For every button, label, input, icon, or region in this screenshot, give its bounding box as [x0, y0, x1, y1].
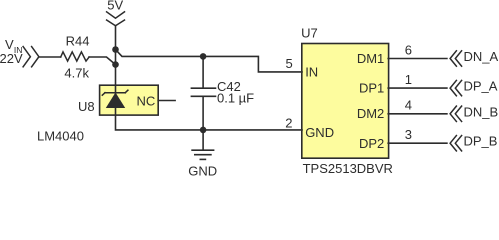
pin DP1 label: [359, 81, 384, 96]
pin DM2 label: [357, 106, 384, 121]
node junction dot C42 top: [200, 53, 207, 60]
off-page connector DP_B: [450, 136, 456, 151]
net label DP_B: [464, 134, 498, 149]
node junction dot lower: [112, 61, 119, 68]
wire 5V vertical down to U8 diode: [115, 26, 117, 93]
svg-text:LM4040: LM4040: [37, 129, 84, 144]
wire V_IN to R44: [39, 56, 61, 58]
svg-text:DM1: DM1: [357, 51, 384, 66]
svg-text:DP_B: DP_B: [464, 134, 498, 149]
svg-text:U8: U8: [78, 99, 95, 114]
wire DP1 pin 1: [388, 87, 447, 89]
svg-text:TPS2513DBVR: TPS2513DBVR: [303, 161, 393, 176]
off-page connector DN_B: [450, 106, 456, 121]
svg-text:1: 1: [405, 72, 412, 87]
pin GND label: [305, 125, 334, 140]
label U7: [301, 26, 318, 41]
node V_IN label: [0, 37, 23, 66]
power 5V label: [107, 0, 123, 13]
svg-text:DP_A: DP_A: [464, 79, 498, 94]
zener diode U8 symbol: [102, 90, 128, 95]
node junction dot upper: [112, 46, 119, 53]
wire DM1 pin 6: [388, 58, 447, 60]
IC U7 box: [302, 44, 389, 159]
svg-text:GND: GND: [305, 125, 334, 140]
off-page connector DN_A: [450, 51, 456, 66]
wire DM2 pin 4: [388, 113, 447, 115]
pin DM1 label: [357, 51, 384, 66]
svg-text:DN_B: DN_B: [464, 104, 499, 119]
svg-text:IN: IN: [305, 65, 318, 80]
node junction dot C42 bottom: [200, 127, 207, 134]
svg-text:DP2: DP2: [359, 136, 384, 151]
svg-text:V: V: [5, 37, 14, 52]
power 5V chevron symbol: [107, 12, 125, 18]
wire DP2 pin 3: [388, 142, 447, 144]
svg-text:U7: U7: [301, 26, 318, 41]
svg-text:5: 5: [286, 56, 293, 71]
svg-text:DM2: DM2: [357, 106, 384, 121]
capacitor C42: [202, 56, 204, 88]
ground: [202, 130, 204, 150]
net label DP_A: [464, 79, 498, 94]
off-page connector V_IN: [23, 47, 30, 67]
pin number 5: [286, 56, 293, 71]
svg-text:DP1: DP1: [359, 81, 384, 96]
svg-text:0.1 µF: 0.1 µF: [217, 91, 254, 106]
svg-text:22V: 22V: [0, 51, 23, 66]
svg-text:2: 2: [285, 115, 292, 130]
wire bottom rail U8 to GND pin 2: [116, 108, 303, 130]
pin number 2: [285, 115, 292, 130]
svg-text:DN_A: DN_A: [464, 49, 499, 64]
resistor R44: [61, 52, 89, 61]
wire R44 to junction: [89, 57, 115, 65]
svg-text:3: 3: [405, 127, 412, 142]
pin IN label: [305, 65, 318, 80]
net label DN_B: [464, 104, 499, 119]
svg-text:NC: NC: [137, 93, 156, 108]
svg-text:4.7k: 4.7k: [64, 65, 89, 80]
pin NC label: [137, 93, 156, 108]
label TPS2513DBVR: [303, 161, 393, 176]
net label DN_A: [464, 49, 499, 64]
svg-text:6: 6: [405, 42, 412, 57]
pin DP2 label: [359, 136, 384, 151]
svg-text:5V: 5V: [107, 0, 123, 13]
wire top rail to IN pin 5: [116, 50, 303, 72]
svg-text:GND: GND: [188, 164, 217, 176]
zener diode U8 box: [100, 85, 159, 115]
wire NC stub: [158, 100, 175, 102]
svg-text:R44: R44: [66, 33, 90, 48]
svg-text:4: 4: [405, 98, 412, 113]
label LM4040: [37, 129, 84, 144]
off-page connector DP_A: [450, 80, 456, 95]
label U8: [78, 99, 95, 114]
